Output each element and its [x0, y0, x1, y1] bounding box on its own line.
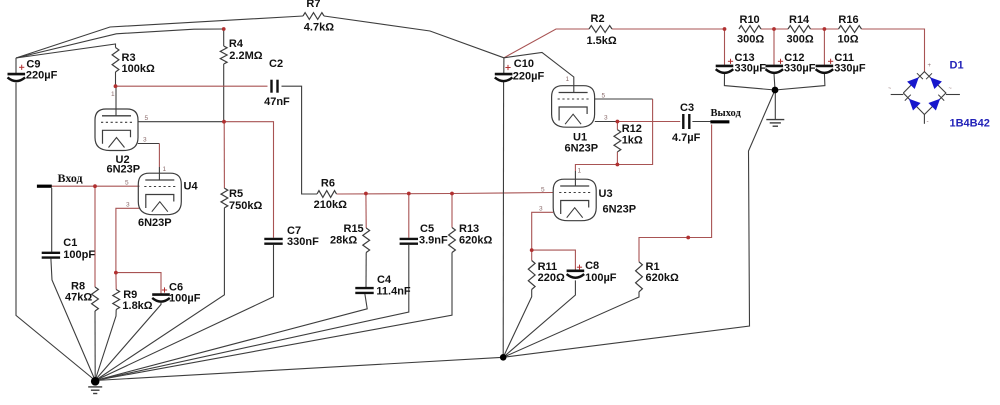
pin 1 U1: [566, 76, 570, 83]
resistor R10 300: [737, 14, 764, 46]
svg-text:750kΩ: 750kΩ: [229, 200, 262, 212]
wire C12 top lead: [773, 29, 775, 65]
svg-text:2.2MΩ: 2.2MΩ: [229, 50, 262, 62]
node mid junction: [500, 354, 507, 361]
wire C3 to output terminal: [692, 121, 710, 123]
resistor R7 4.7k: [303, 0, 334, 34]
capacitor C11 330uF: [816, 52, 866, 75]
wire C9 top to R7 left (B+ feed): [16, 16, 303, 58]
node B+ C12: [772, 27, 776, 31]
svg-text:R14: R14: [789, 14, 810, 26]
wire ground to mid junction: [95, 357, 503, 380]
svg-text:1: 1: [578, 168, 582, 175]
wire C13 top lead: [724, 29, 726, 65]
node C5 top: [407, 192, 411, 196]
svg-text:4.7kΩ: 4.7kΩ: [304, 22, 334, 34]
svg-text:D1: D1: [950, 60, 964, 72]
wire C10 top to U1 anode: [504, 53, 574, 93]
wire R11 bottom to mid junction: [503, 289, 532, 357]
wire U2 pin3 cathode stub: [138, 143, 160, 145]
node input R8: [93, 184, 97, 188]
wire C11 bottom to PSU node: [775, 74, 825, 91]
wire PSU node to mid junction: [503, 90, 775, 357]
node U1 cathode: [616, 120, 620, 124]
svg-text:300Ω: 300Ω: [787, 34, 814, 46]
capacitor C13 330uF: [716, 52, 766, 75]
wire R12 top lead: [616, 122, 618, 130]
svg-text:11.4nF: 11.4nF: [376, 285, 411, 297]
wire R6 right red bus to U3 grid: [337, 193, 554, 195]
svg-text:Выход: Выход: [711, 108, 742, 119]
resistor R9 1.8k: [113, 289, 153, 312]
svg-text:R15: R15: [344, 223, 364, 235]
wire R15 to C4: [365, 253, 367, 288]
wire C9 top lead: [15, 58, 17, 73]
svg-text:6N23P: 6N23P: [138, 217, 172, 229]
pin 5 U4: [125, 180, 129, 187]
wire C9 top to R3 top: [16, 44, 116, 58]
wire B+ bus segment R14-R16: [811, 28, 839, 30]
wire C11 top lead: [823, 29, 825, 65]
svg-text:220µF: 220µF: [26, 70, 58, 82]
svg-text:3: 3: [126, 202, 130, 209]
wire C9 bottom to ground: [16, 83, 95, 381]
svg-text:1B4B42: 1B4B42: [950, 118, 990, 130]
svg-text:1: 1: [163, 166, 167, 173]
node R4 top: [222, 27, 226, 31]
resistor R11 220: [528, 261, 565, 290]
svg-text:5: 5: [541, 187, 545, 194]
capacitor C3 4.7uF: [672, 102, 701, 144]
resistor R6 210k: [314, 178, 347, 211]
pin 1 U3: [578, 168, 582, 175]
svg-text:1.5kΩ: 1.5kΩ: [587, 35, 617, 47]
wire node K3 to C8 top: [532, 250, 576, 270]
capacitor C12 330uF: [766, 52, 816, 75]
wire node K3 to R11: [531, 250, 533, 260]
wire U2 pin1 anode lead: [115, 86, 117, 116]
pin 3 U3: [539, 206, 543, 213]
wire U3 pin3 cathode to node K3: [532, 212, 554, 250]
wire node K4 to R9: [115, 273, 117, 290]
svg-text:1.8kΩ: 1.8kΩ: [122, 300, 152, 312]
capacitor C7 330nF: [264, 225, 319, 248]
svg-text:3.9nF: 3.9nF: [419, 235, 448, 247]
wire R2 right to B+ node: [612, 28, 725, 30]
svg-text:100µF: 100µF: [585, 272, 617, 284]
svg-text:C4: C4: [377, 274, 392, 286]
wire C13 bottom to PSU node: [724, 74, 775, 91]
resistor R3 100k: [112, 48, 155, 76]
svg-text:R16: R16: [838, 14, 858, 26]
resistor R4 2.2M: [220, 38, 262, 64]
svg-text:~: ~: [888, 86, 891, 92]
svg-text:R5: R5: [229, 188, 243, 200]
svg-text:R6: R6: [321, 178, 335, 190]
wire B+ bus segment R10-R14: [761, 28, 788, 30]
wire R5 bottom to ground: [95, 208, 224, 381]
svg-text:210kΩ: 210kΩ: [314, 199, 347, 211]
wire U4 pin3 cathode to node K4: [116, 208, 140, 272]
pin 1 U4: [163, 166, 167, 173]
wire output down to R1 top: [639, 125, 712, 262]
resistor R5 750k: [221, 188, 262, 212]
wire U1 grid to feedback corner: [595, 98, 653, 100]
svg-text:100µF: 100µF: [169, 292, 201, 304]
capacitor C1 100pF: [42, 237, 96, 261]
wire R15 top lead: [365, 194, 367, 229]
svg-text:47kΩ: 47kΩ: [65, 292, 92, 304]
wire anode bus R3 to C2: [116, 85, 268, 87]
pin 1 U2: [111, 91, 115, 98]
svg-text:330µF: 330µF: [735, 63, 767, 75]
pin 3 U2: [143, 137, 147, 144]
svg-text:Вход: Вход: [58, 171, 83, 185]
wire R7 right to C10 top: [324, 16, 504, 58]
svg-text:R2: R2: [591, 13, 605, 25]
resistor R2 1.5k: [587, 13, 617, 47]
resistor R1 620k: [636, 261, 679, 292]
svg-text:R10: R10: [740, 14, 760, 26]
node A grid U2: [222, 120, 226, 124]
wire R8 bottom to ground: [94, 311, 96, 380]
svg-text:28kΩ: 28kΩ: [330, 235, 357, 247]
node R13 top: [450, 192, 454, 196]
capacitor C2 47nF: [264, 58, 290, 108]
svg-text:+: +: [928, 63, 932, 69]
wire C10 bottom to mid junction: [502, 81, 504, 357]
wire R8 top lead: [94, 186, 96, 287]
wire R4 bottom lead crossing bus: [223, 64, 225, 122]
ground PSU filter: [766, 120, 784, 127]
wire C5 top lead: [408, 194, 410, 238]
wire U3 pin1 lead: [574, 171, 576, 186]
node B+ C11: [823, 27, 827, 31]
node PSU junction: [772, 87, 779, 94]
wire R13 top lead: [451, 194, 453, 228]
output terminal Vyhod: [710, 108, 741, 123]
wire C10 top lead: [503, 58, 505, 74]
svg-text:1kΩ: 1kΩ: [622, 135, 643, 147]
wire R13 bottom to ground: [95, 253, 452, 381]
wire C8 bottom to mid junction: [503, 280, 575, 357]
svg-text:47nF: 47nF: [264, 96, 290, 108]
pin 3 U4: [126, 202, 130, 209]
capacitor C8 100uF: [567, 260, 617, 284]
wire C10 top to R2 left: [504, 29, 589, 58]
svg-text:220µF: 220µF: [513, 71, 545, 83]
wire PSU node to ground symbol: [774, 90, 776, 119]
diode bridge D1 1B4B42: [888, 60, 990, 130]
node K4 cathode U4: [114, 271, 118, 275]
svg-text:6N23P: 6N23P: [565, 143, 599, 155]
node U3 anode feedback: [616, 163, 620, 167]
svg-text:6N23P: 6N23P: [107, 164, 141, 176]
svg-text:-: -: [927, 118, 929, 125]
wire C5 bottom to ground: [95, 245, 409, 381]
wire C6 bottom to ground: [95, 303, 161, 380]
node R15 top: [364, 192, 368, 196]
wire U2 grid to node A: [138, 121, 224, 123]
wire R9 bottom to ground: [95, 310, 116, 381]
wire U2 cathode down to U4 anode: [158, 144, 160, 168]
svg-text:3: 3: [539, 206, 543, 213]
svg-text:100pF: 100pF: [63, 249, 95, 261]
pin 5 U3: [541, 187, 545, 194]
svg-text:220Ω: 220Ω: [538, 272, 565, 284]
pin 5 U1: [602, 93, 606, 100]
svg-text:R13: R13: [459, 223, 479, 235]
wire R5 top lead: [223, 122, 225, 189]
svg-text:C10: C10: [514, 58, 534, 70]
op-amp U2 triode 6N23P: [95, 109, 140, 176]
svg-text:R12: R12: [622, 123, 642, 135]
ground main left: [88, 377, 102, 394]
svg-text:C2: C2: [269, 58, 283, 70]
svg-text:1: 1: [111, 91, 115, 98]
node B+ C13: [723, 27, 727, 31]
wire C9 top to R4 top: [16, 29, 224, 58]
resistor R12 1k: [614, 123, 643, 152]
svg-text:U3: U3: [599, 188, 613, 200]
svg-text:5: 5: [125, 180, 129, 187]
svg-text:620kΩ: 620kΩ: [459, 235, 492, 247]
wire U4 pin1 lead: [158, 167, 160, 180]
wire R1 bottom to mid junction: [503, 292, 639, 358]
svg-text:C5: C5: [420, 223, 434, 235]
wire U1 pin3 cathode stub: [595, 121, 618, 123]
svg-text:C8: C8: [585, 260, 599, 272]
wire C4 bottom to ground: [95, 293, 367, 380]
pin 3 U1: [604, 115, 608, 122]
wire R3 bottom lead: [115, 72, 117, 86]
wire C1 top lead: [51, 188, 53, 252]
node R3 bottom anode U2: [114, 84, 118, 88]
svg-text:100kΩ: 100kΩ: [122, 63, 155, 75]
wire C1 bottom to ground: [51, 259, 95, 381]
wire C2 right to R6 left: [282, 86, 318, 194]
svg-text:C1: C1: [63, 237, 77, 249]
resistor R16 10: [838, 14, 862, 46]
svg-text:620kΩ: 620kΩ: [646, 272, 679, 284]
op-amp U3 triode 6N23P: [553, 179, 636, 221]
svg-text:5: 5: [145, 115, 149, 122]
svg-text:R7: R7: [306, 0, 320, 10]
svg-text:330µF: 330µF: [784, 63, 816, 75]
svg-text:330µF: 330µF: [834, 63, 866, 75]
svg-text:3: 3: [604, 115, 608, 122]
capacitor C4 11.4nF: [355, 274, 411, 297]
pin 5 U2: [145, 115, 149, 122]
resistor R14 300: [787, 14, 814, 46]
capacitor C9 220uF: [8, 58, 58, 81]
node K3 cathode U3: [530, 248, 534, 252]
wire node K4 to C6 top: [116, 273, 161, 295]
svg-text:3: 3: [143, 137, 147, 144]
op-amp U4 triode 6N23P: [138, 173, 198, 229]
capacitor C5 3.9nF: [400, 223, 448, 247]
wire C12 bottom to PSU node: [774, 74, 775, 91]
svg-text:4.7µF: 4.7µF: [672, 132, 701, 144]
wire R4 top lead: [223, 29, 225, 46]
svg-text:300Ω: 300Ω: [737, 34, 764, 46]
wire R12 bottom lead: [616, 152, 618, 165]
svg-text:5: 5: [602, 93, 606, 100]
capacitor C10 220uF: [495, 58, 545, 83]
wire feedback down and to U3 anode: [575, 99, 652, 171]
resistor R13 620k: [449, 223, 493, 253]
svg-text:6N23P: 6N23P: [603, 204, 637, 216]
svg-text:330nF: 330nF: [287, 236, 319, 248]
wire C7 bottom to ground: [95, 245, 273, 381]
input terminal Vhod: [37, 171, 83, 188]
wire R16 to bridge D1: [862, 29, 925, 72]
svg-text:R4: R4: [229, 38, 244, 50]
svg-text:10Ω: 10Ω: [838, 34, 859, 46]
wire input terminal to U4 grid: [52, 185, 140, 187]
svg-text:C3: C3: [680, 102, 694, 114]
capacitor C6 100uF: [152, 282, 200, 305]
svg-text:1: 1: [566, 76, 570, 83]
wire node A to C7 branch: [224, 122, 274, 238]
svg-text:~: ~: [949, 86, 952, 92]
op-amp U1 triode 6N23P: [552, 86, 599, 155]
wire U1 cathode to C3: [617, 121, 680, 123]
svg-text:C9: C9: [26, 58, 40, 70]
resistor R15 28k: [330, 223, 370, 252]
resistor R8 47k: [65, 281, 98, 311]
svg-text:U4: U4: [184, 181, 199, 193]
node output R1: [686, 236, 690, 240]
